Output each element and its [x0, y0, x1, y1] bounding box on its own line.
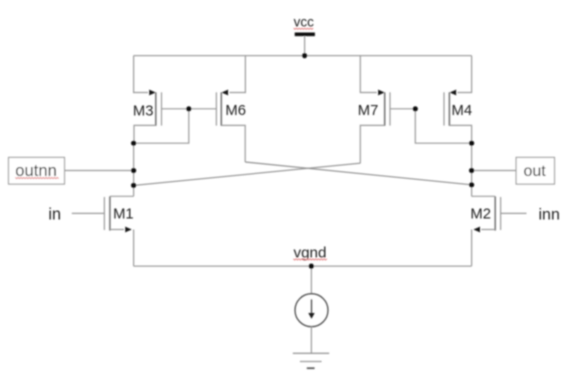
wire M7 gate to node B: [390, 108, 415, 110]
svg-text:M6: M6: [225, 103, 246, 119]
wire M2 source down to bottom rail: [471, 230, 473, 267]
wire cross-couple M7 drain to left column: [134, 163, 361, 185]
wire left column middle: [133, 143, 135, 196]
svg-text:out: out: [524, 163, 547, 180]
transistor M7: [358, 90, 390, 164]
wire node B down to M4 drain tie: [415, 109, 471, 143]
wire left column top (rail to M3 source): [134, 56, 148, 93]
transistor M6: [216, 90, 246, 162]
wire M3 gate to node A: [162, 108, 189, 110]
ground: [293, 353, 329, 368]
svg-text:in: in: [48, 206, 61, 224]
vcc supply bar: [295, 33, 315, 37]
wire cross-couple M6 drain to right column: [245, 162, 471, 185]
junction outnn tap: [131, 168, 136, 173]
wire inn to M2 gate: [501, 212, 527, 214]
wire out to right column: [472, 170, 516, 172]
junction left cross-couple node: [131, 183, 136, 188]
junction vcc on rail: [302, 53, 307, 58]
wire M6 gate to node A: [189, 108, 217, 110]
wire node A down to M3 drain tie: [134, 109, 189, 143]
wire top rail: [134, 55, 472, 57]
wire in to M1 gate: [72, 212, 105, 214]
wire M1 source down to bottom rail: [133, 230, 135, 267]
junction right cross-couple node: [469, 182, 474, 187]
wire right column middle: [471, 143, 473, 196]
svg-text:M1: M1: [113, 207, 134, 223]
wire bottom rail: [134, 265, 472, 267]
wire tail down to current source: [310, 266, 312, 294]
svg-text:M4: M4: [452, 103, 473, 119]
port box out: [516, 157, 554, 184]
wire current source to ground: [310, 327, 312, 354]
wire vcc lead: [304, 36, 306, 56]
junction M4 drain tie: [469, 141, 474, 146]
transistor M3: [133, 90, 162, 144]
net label vcc: [294, 14, 315, 29]
svg-text:M3: M3: [133, 103, 154, 119]
junction node B (M7/M4 gates): [413, 106, 418, 111]
current source I1: [295, 294, 328, 327]
transistor M4: [444, 90, 472, 144]
wire M6 source from rail: [230, 56, 246, 93]
port box outnn: [9, 157, 65, 184]
junction tail node on vgnd rail: [309, 264, 314, 269]
transistor M1: [104, 196, 133, 232]
svg-text:outnn: outnn: [15, 161, 57, 180]
svg-text:M7: M7: [358, 103, 379, 119]
svg-text:vcc: vcc: [294, 14, 315, 29]
wire outnn to left column: [65, 170, 134, 172]
junction out tap: [469, 168, 474, 173]
svg-text:M2: M2: [470, 207, 491, 223]
junction M3 drain tie: [131, 141, 136, 146]
wire M7 source from rail: [360, 56, 377, 93]
svg-text:inn: inn: [539, 206, 560, 223]
transistor M2: [470, 196, 500, 232]
net label vgnd: [293, 245, 327, 262]
wire right column top (rail to M4 source): [458, 56, 472, 93]
junction node A (M3/M6 gates): [186, 106, 191, 111]
